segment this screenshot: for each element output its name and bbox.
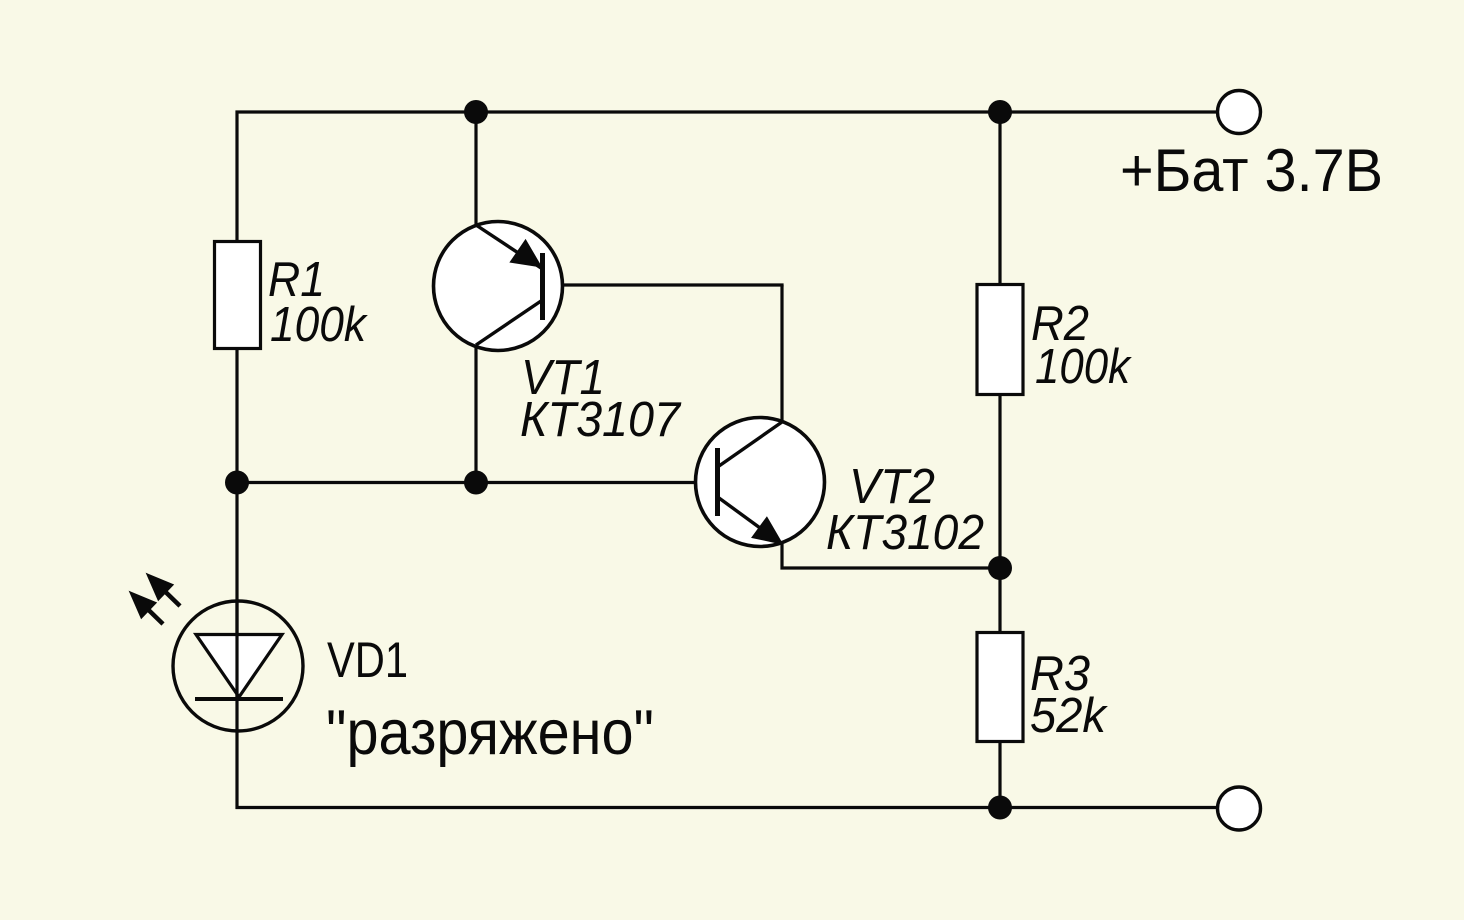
wire: VT1 emitter down to middle rail bbox=[474, 344, 477, 483]
wire: VT1 base lead horizontal bbox=[543, 283, 784, 286]
svg-text:"разряжено": "разряжено" bbox=[326, 698, 654, 768]
LED VD1 light arrow 2 bbox=[148, 575, 180, 606]
resistor R3 bbox=[977, 633, 1023, 742]
node: middle rail / VT1 emitter junction bbox=[464, 471, 488, 495]
svg-text:КТ3102: КТ3102 bbox=[826, 506, 984, 560]
wire: R2 bottom to node bbox=[998, 394, 1001, 633]
wire: right vertical from top rail to R2 bbox=[998, 112, 1001, 286]
transistor VT1 emitter line bbox=[476, 225, 541, 268]
wire: LED vertical through VD1 bbox=[235, 482, 238, 809]
transistor VT2 emitter arrow (NPN, outward) bbox=[753, 519, 781, 544]
transistor VT2 body bbox=[696, 418, 825, 547]
transistor VT1 body bbox=[434, 222, 563, 351]
LED VD1 light arrow 1 bbox=[131, 593, 163, 624]
node: top rail / R2 junction bbox=[988, 100, 1012, 124]
wire: R1 bottom to left node bbox=[235, 348, 238, 483]
node: R2/R3 divider junction bbox=[988, 556, 1012, 580]
wire: VT1 collector vertical from top rail bbox=[474, 112, 477, 226]
terminal: negative bbox=[1218, 787, 1261, 830]
resistor R1 bbox=[215, 242, 261, 349]
svg-text:100k: 100k bbox=[1035, 340, 1132, 394]
wire: redraw LED vertical over triangle bbox=[235, 600, 238, 700]
svg-text:100k: 100k bbox=[270, 298, 368, 352]
svg-text:VD1: VD1 bbox=[327, 632, 408, 688]
transistor VT1 collector line bbox=[476, 301, 541, 345]
transistor VT2 emitter line bbox=[719, 498, 782, 544]
svg-text:+Бат 3.7В: +Бат 3.7В bbox=[1120, 137, 1383, 204]
LED VD1 anode triangle bbox=[196, 635, 282, 698]
LED VD1 body bbox=[173, 601, 303, 731]
node: bottom rail / R3 junction bbox=[988, 796, 1012, 820]
svg-text:КТ3107: КТ3107 bbox=[520, 393, 682, 447]
wire: R3 bottom to bottom rail bbox=[998, 741, 1001, 808]
wire: VT2 emitter down then right to R2/R3 node bbox=[782, 544, 1000, 568]
transistor VT1 base bar bbox=[540, 253, 545, 320]
LED VD1 cathode bar bbox=[195, 697, 283, 701]
node: top rail / VT1 collector junction bbox=[464, 100, 488, 124]
wire: left vertical from top rail to R1 bbox=[235, 111, 238, 244]
transistor VT2 collector line bbox=[719, 422, 782, 466]
wire: vertical from VT1 base to VT2 collector bbox=[780, 285, 783, 423]
wire: bottom rail bbox=[236, 806, 1218, 809]
wire: middle horizontal base rail to VT2 bbox=[236, 481, 718, 484]
transistor VT1 emitter arrow (PNP, into base) bbox=[512, 241, 541, 266]
svg-text:52k: 52k bbox=[1030, 689, 1108, 743]
terminal: +Bat 3.7V bbox=[1218, 91, 1261, 134]
wire: top supply rail bbox=[236, 110, 1218, 113]
node: left rail / middle rail junction bbox=[225, 471, 249, 495]
transistor VT2 base bar bbox=[715, 448, 720, 516]
resistor R2 bbox=[977, 285, 1023, 395]
